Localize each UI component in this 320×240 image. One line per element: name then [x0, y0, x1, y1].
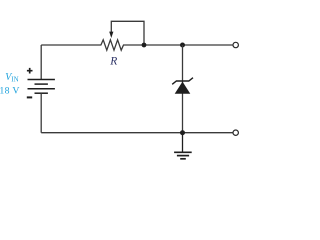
battery VIN plates — [28, 80, 55, 94]
battery minus sign — [27, 96, 32, 98]
output terminal top-right — [233, 42, 238, 47]
output terminal bottom-right — [233, 130, 238, 135]
node junction dot at zener bottom / ground tap — [180, 130, 185, 135]
wire left vertical upper (top rail to battery +) — [40, 45, 42, 80]
zener diode anode triangle — [175, 82, 191, 94]
ground — [174, 133, 192, 159]
node junction dot at zener top — [180, 43, 185, 48]
wire top rail left lead with resistor R zigzag — [41, 40, 232, 50]
wire rheostat wiper loop with arrow — [111, 21, 144, 45]
wire left vertical lower (battery - to bottom rail) — [40, 93, 42, 133]
svg-text:VIN: VIN — [5, 72, 19, 84]
battery plus sign — [27, 68, 33, 74]
zener diode cathode bar with bent ends — [172, 78, 193, 85]
wire zener branch vertical — [182, 45, 184, 133]
svg-text:18 V: 18 V — [0, 85, 20, 96]
wire bottom rail — [41, 132, 232, 134]
node junction dot at wiper tap — [142, 43, 147, 48]
svg-text:R: R — [109, 56, 117, 68]
